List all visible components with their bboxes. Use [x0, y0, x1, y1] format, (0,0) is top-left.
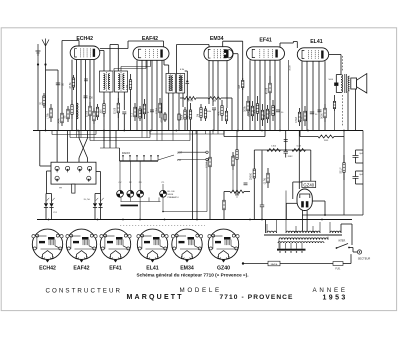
svg-text:47.5k: 47.5k [69, 82, 72, 89]
wire antenna down [45, 65, 47, 131]
svg-text:1304: 1304 [271, 145, 277, 147]
wire ground dotted [120, 225, 205, 227]
svg-text:0.3M: 0.3M [155, 108, 158, 114]
output transformer T3 [341, 74, 350, 93]
resistor R4 [85, 102, 91, 120]
wire switch top leads [57, 131, 87, 163]
diode D1b [49, 198, 57, 220]
resistor R21 filter [300, 131, 344, 143]
resistor R7b [140, 99, 146, 119]
wire heater rail 3 [90, 131, 190, 141]
svg-text:Schéma général du récepteur 77: Schéma général du récepteur 7710 (« Prov… [136, 272, 248, 277]
svg-text:0.1: 0.1 [130, 113, 133, 117]
tube socket EF41 [100, 229, 131, 262]
svg-text:52.08: 52.08 [85, 110, 88, 117]
svg-text:MARQUETT: MARQUETT [127, 294, 184, 301]
bus ticks [122, 155, 159, 161]
resistor R2b osc top [69, 75, 75, 90]
resistor R19 grid leak [295, 108, 301, 126]
resistor R18b [268, 100, 274, 121]
capacitor C12 [284, 150, 294, 158]
svg-text:100k: 100k [180, 114, 183, 120]
resistor R9 horizontal [180, 97, 232, 131]
tube EF41 [247, 47, 285, 60]
svg-text:140: 140 [235, 193, 240, 196]
svg-text:100: 100 [99, 109, 102, 114]
diode D2a [93, 198, 98, 220]
diode D2b [98, 198, 103, 220]
power transformer core [264, 234, 342, 236]
wire pot ground drop [139, 202, 141, 220]
model 7710-PROVENCE [220, 294, 294, 301]
svg-text:INTER.: INTER. [338, 241, 346, 243]
svg-text:1M: 1M [196, 114, 199, 117]
wire feeder drops [100, 131, 120, 162]
junction node antenna [44, 63, 46, 65]
svg-text:SELF: SELF [339, 167, 342, 174]
svg-text:FUS.: FUS. [335, 268, 341, 270]
label SECTEUR [358, 257, 371, 261]
wire ECH42 pins [72, 60, 94, 131]
resistor R12b [225, 108, 227, 124]
resistor R12c [238, 78, 244, 90]
resistor R8e [186, 103, 192, 131]
wire heater rail 2 [70, 131, 150, 138]
wire EL41 plate [329, 55, 341, 75]
wire mid drops [193, 131, 198, 220]
wire band diagonal [158, 155, 174, 160]
tube EAF42 [133, 47, 169, 61]
wire T2 top feed [177, 45, 210, 74]
tube EL41 [297, 48, 328, 61]
wire HT chain [254, 131, 310, 182]
resistor R8c [178, 112, 180, 131]
wire EL41 pins [302, 61, 325, 130]
resistor R26 [223, 197, 225, 220]
svg-text:EAF42: EAF42 [142, 36, 158, 42]
capacitor C5 padding [185, 71, 189, 131]
wire EAF42 staircase [114, 60, 151, 71]
label EL41 [310, 39, 323, 45]
capacitor C7 [207, 108, 216, 131]
ground symbol [234, 193, 240, 197]
svg-text:DL,7hL: DL,7hL [84, 199, 91, 201]
resistor R5 AVC [126, 74, 132, 131]
resistor R1 [46, 104, 52, 122]
wire screen feed [232, 131, 238, 193]
svg-text:ECH42: ECH42 [39, 266, 56, 272]
socket label GZ40 [217, 266, 230, 272]
resistor R20 cathode [300, 106, 306, 126]
svg-text:EF41: EF41 [259, 38, 272, 44]
wire heater rail 4 [150, 131, 224, 135]
capacitor C14 [260, 151, 264, 220]
svg-text:45.08: 45.08 [265, 87, 268, 94]
rectifier label box GZ40 [302, 181, 316, 187]
resistor R13 [243, 96, 249, 116]
svg-text:470k: 470k [160, 117, 163, 123]
dashed chassis line [341, 56, 343, 126]
label RADIO [122, 151, 130, 155]
bus junction dots [45, 130, 345, 132]
svg-text:L70k: L70k [46, 113, 49, 119]
svg-text:EAF42: EAF42 [73, 266, 89, 272]
socket label ECH42 [39, 266, 56, 272]
capacitor C11 tone [329, 75, 341, 93]
svg-text:100k: 100k [243, 106, 246, 112]
resistor R10 [196, 104, 202, 121]
svg-text:ECH42: ECH42 [76, 36, 93, 42]
svg-text:MILIE: MILIE [168, 194, 174, 196]
diode D1a [44, 198, 49, 220]
wire B+ rail right [362, 131, 364, 216]
svg-text:(1.7k): (1.7k) [263, 178, 266, 185]
fuse F2 thermal [268, 261, 280, 266]
terminal left [242, 262, 244, 264]
wire heater rail 1 [52, 131, 96, 135]
wire GZ40 anodes [286, 203, 307, 231]
wire pot bus [162, 161, 207, 213]
brand MARQUETT [127, 294, 184, 301]
wire earth down [37, 65, 39, 131]
antenna [42, 39, 49, 64]
svg-text:EF41: EF41 [109, 266, 122, 272]
tube socket ECH42 [32, 229, 63, 262]
resistor R24b [205, 131, 269, 220]
svg-text:MAZDA: MAZDA [271, 263, 278, 266]
svg-text:170: 170 [300, 116, 303, 121]
svg-text:1953: 1953 [323, 294, 348, 301]
earth terminal [36, 44, 41, 64]
label EF41 [259, 38, 272, 44]
resistor R18 [263, 105, 269, 123]
resistor R2 [57, 110, 63, 126]
wire bottom right rail [302, 214, 363, 216]
svg-text:GZ40: GZ40 [303, 182, 314, 187]
resistor R16 [261, 104, 263, 126]
capacitor C13 [244, 183, 248, 185]
socket label EL41 [146, 266, 159, 272]
wire grid cap ECH42-EAF42 [100, 41, 165, 52]
svg-text:ANNEE: ANNEE [313, 287, 348, 294]
resistor R17 screen [265, 76, 271, 100]
wire EM34 grid top [223, 41, 243, 130]
resistor R20b [320, 104, 326, 122]
wire block left feed [40, 131, 51, 167]
capacitor C1 [56, 83, 65, 86]
resistor R22 [267, 145, 281, 151]
fuse F1 [243, 254, 351, 270]
wire cap branch [46, 70, 59, 131]
wire ECH42 plate [100, 51, 104, 72]
power transformer primary [267, 231, 341, 233]
resistor R4b [93, 108, 95, 124]
svg-text:50p: 50p [186, 115, 189, 120]
tube socket EL41 [137, 229, 168, 262]
wire GZ40 top [293, 131, 302, 200]
label PU [177, 159, 182, 162]
resistor R4c [63, 106, 69, 122]
capacitor C3 trimmer [122, 112, 126, 131]
label CONSTRUCTEUR [46, 288, 123, 295]
resistor R5a [99, 100, 105, 117]
rectifier tube GZ40 [297, 189, 312, 211]
resistor R4d [96, 104, 98, 120]
switch block S1 keyboard [51, 162, 96, 193]
resistor R3 osc grid [67, 100, 73, 119]
capacitor C10 [318, 110, 322, 112]
tube EM34 magic eye [204, 47, 233, 61]
wire ECH42 grid cap [62, 41, 79, 111]
socket label EM34 [180, 266, 194, 272]
wire EF41 plate [280, 42, 293, 48]
wire EAF42 pins [137, 60, 162, 130]
svg-text:APA: APA [57, 118, 60, 123]
svg-text:GZ40: GZ40 [217, 266, 230, 272]
svg-text:CONSTRUCTEUR: CONSTRUCTEUR [46, 288, 123, 295]
svg-text:EM34: EM34 [180, 266, 194, 272]
resistor R8d [180, 107, 186, 131]
resistor R6 [130, 103, 136, 121]
wire B+ rail left [343, 131, 345, 216]
wire EM34 right [233, 54, 238, 131]
wire switch left drop [46, 171, 52, 203]
resistor R14 [248, 101, 254, 121]
wire speaker down [348, 89, 355, 131]
svg-text:0.5M: 0.5M [268, 111, 271, 117]
wire r25 leads [224, 192, 250, 198]
wire crossover [79, 138, 88, 162]
junction node earth [37, 63, 39, 65]
wire transformer ends [266, 220, 353, 249]
mains terminal [349, 248, 362, 255]
year 1953 [323, 294, 348, 301]
svg-text:100k: 100k [207, 111, 211, 113]
svg-text:RADIO: RADIO [122, 151, 130, 155]
resistor R25 [230, 190, 244, 196]
resistor R5b [114, 98, 120, 118]
svg-text:7710 - PROVENCE: 7710 - PROVENCE [220, 294, 294, 301]
capacitor C10b [333, 95, 335, 131]
wire heater taps [279, 243, 302, 253]
wire aux lines [178, 151, 208, 161]
svg-text:5000: 5000 [320, 113, 323, 119]
tube socket EM34 [171, 229, 202, 262]
power transformer tertiary [278, 242, 324, 243]
svg-text:SECTEUR: SECTEUR [358, 257, 371, 261]
wire pot feet [121, 197, 161, 201]
capacitor C20 electrolytic [353, 150, 364, 163]
wire EF41 pins [250, 60, 280, 130]
svg-text:0.5M: 0.5M [295, 117, 298, 123]
IF transformer T1 primary [100, 71, 114, 92]
svg-text:RL. DE: RL. DE [168, 191, 176, 193]
wire switch right drop [84, 172, 101, 204]
svg-text:2082: 2082 [288, 156, 294, 158]
svg-text:0.05: 0.05 [248, 111, 251, 116]
resistor R7 [139, 106, 141, 121]
wire EM34 pins [209, 61, 227, 131]
IF transformer T1 secondary [115, 71, 128, 92]
resistor R8b [160, 112, 166, 123]
label ECH42 [76, 36, 93, 42]
wire sub-bus [224, 131, 265, 137]
capacitor C2b [84, 79, 88, 81]
socket label EAF42 [73, 266, 89, 272]
label T2 [180, 69, 185, 71]
capacitor C2 padder [84, 96, 94, 99]
potentiometers CV P2 P3 P1 [117, 161, 167, 197]
switch INTER [336, 241, 350, 249]
capacitor C4 [147, 110, 154, 114]
svg-text:100: 100 [89, 96, 94, 99]
svg-text:45.08: 45.08 [290, 65, 292, 71]
svg-text:PREAMPLI: PREAMPLI [168, 196, 179, 199]
resistor R24 [250, 140, 288, 220]
band bus bar [120, 160, 159, 162]
label MODELE [180, 287, 222, 294]
label ANNEE [313, 287, 348, 294]
wire ground bus [37, 219, 352, 221]
wire heater stubs [77, 131, 219, 141]
terminal strip pots [121, 205, 139, 207]
svg-text:EM34: EM34 [210, 36, 224, 42]
capacitor C9 cathode [310, 112, 318, 116]
label preampli [168, 191, 179, 199]
caption schema [136, 272, 248, 277]
svg-text:EL41: EL41 [146, 266, 159, 272]
resistor R12 [217, 100, 223, 121]
svg-text:MODELE: MODELE [180, 287, 222, 294]
resistor R8 [155, 98, 161, 118]
label EM34 [210, 36, 224, 42]
coil L1 antenna [39, 93, 45, 108]
terminal strip bar [277, 249, 306, 251]
wire transformer feeds [267, 191, 330, 234]
tube socket EAF42 [66, 229, 97, 262]
wire GZ40 cathode B+ [312, 201, 326, 216]
power transformer secondary [279, 238, 328, 240]
tube ECH42 [70, 46, 100, 60]
loudspeaker HP [351, 74, 367, 93]
wire grid EL41 [293, 42, 297, 49]
coil L2 osc [77, 103, 79, 119]
tube socket GZ40 [208, 229, 239, 262]
resistor R11 [204, 106, 206, 121]
ground dots [48, 219, 323, 221]
svg-text:1.5k: 1.5k [263, 114, 266, 119]
label EAF42 [142, 36, 158, 42]
svg-text:5k: 5k [147, 112, 149, 114]
resistor R23 [292, 145, 306, 151]
IF transformer T2 secondary [177, 74, 185, 94]
socket label EF41 [109, 266, 122, 272]
wire T1 leads [104, 45, 124, 131]
IF transformer T2 primary [166, 74, 175, 94]
svg-text:1M: 1M [238, 85, 241, 88]
resistor R15 [253, 96, 259, 121]
capacitor C8 [276, 110, 284, 114]
svg-text:EL41: EL41 [310, 39, 323, 45]
svg-text:52.08: 52.08 [114, 107, 117, 114]
resistor screen label [289, 60, 292, 131]
svg-text:25000: 25000 [250, 172, 253, 180]
label LIST [177, 152, 183, 155]
svg-text:7001: 7001 [324, 140, 330, 142]
capacitor C21 electrolytic [353, 171, 364, 184]
wire T2 leads [164, 60, 183, 130]
svg-text:APPA: APPA [187, 100, 194, 103]
svg-text:4.7M: 4.7M [126, 85, 129, 91]
choke self [339, 155, 345, 180]
wire main HT bus [33, 130, 363, 132]
